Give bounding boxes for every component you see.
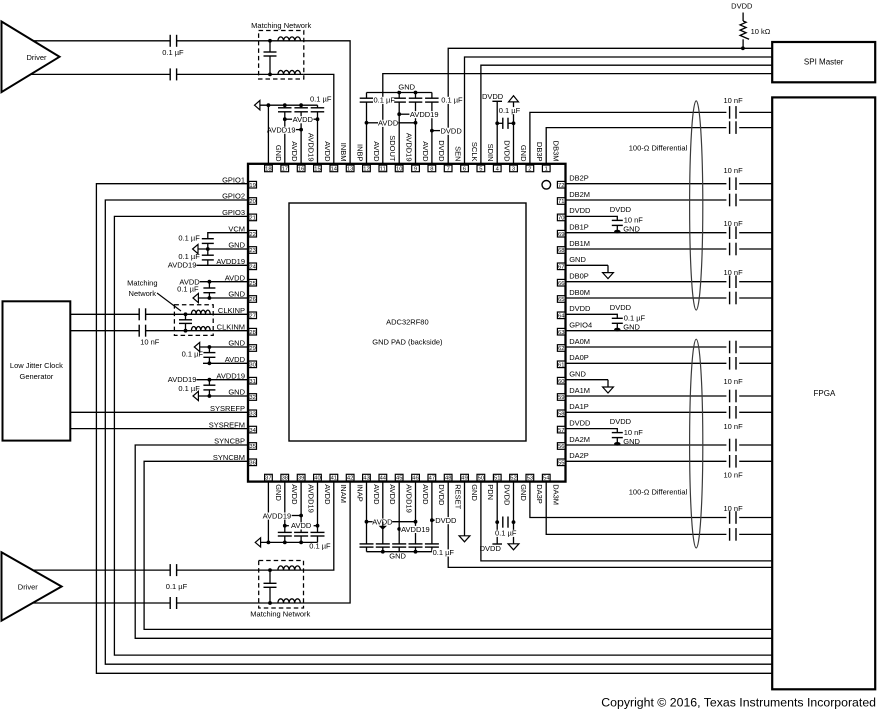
- svg-text:28: 28: [249, 330, 255, 336]
- svg-text:62: 62: [558, 346, 564, 352]
- svg-text:15: 15: [314, 167, 320, 173]
- svg-text:10 nF: 10 nF: [624, 428, 644, 437]
- svg-text:22: 22: [249, 232, 255, 238]
- svg-text:41: 41: [331, 476, 337, 482]
- svg-text:10 nF: 10 nF: [724, 268, 744, 277]
- svg-text:56: 56: [558, 444, 564, 450]
- svg-text:1: 1: [545, 167, 548, 173]
- svg-text:34: 34: [249, 428, 256, 434]
- svg-text:DVDD: DVDD: [610, 303, 632, 312]
- svg-text:0.1 µF: 0.1 µF: [433, 548, 455, 557]
- svg-text:9: 9: [414, 167, 417, 173]
- svg-text:38: 38: [282, 476, 288, 482]
- svg-text:0.1 µF: 0.1 µF: [495, 529, 517, 538]
- svg-text:AVDD19: AVDD19: [306, 484, 315, 513]
- svg-text:INAP: INAP: [355, 484, 364, 502]
- svg-text:45: 45: [396, 476, 402, 482]
- svg-text:40: 40: [314, 476, 320, 482]
- svg-text:RESET: RESET: [454, 484, 463, 509]
- svg-text:0.1 µF: 0.1 µF: [374, 96, 396, 105]
- svg-text:AVDD: AVDD: [290, 484, 299, 505]
- svg-text:18: 18: [265, 167, 271, 173]
- svg-text:26: 26: [249, 297, 255, 303]
- svg-text:10 kΩ: 10 kΩ: [751, 27, 771, 36]
- svg-text:DB0M: DB0M: [569, 288, 590, 297]
- svg-text:GND: GND: [519, 145, 528, 162]
- svg-text:AVDD: AVDD: [293, 115, 314, 124]
- svg-text:DB1P: DB1P: [569, 223, 589, 232]
- svg-text:CLKINM: CLKINM: [217, 322, 245, 331]
- svg-text:67: 67: [558, 264, 564, 270]
- svg-text:7: 7: [447, 167, 450, 173]
- svg-text:10 nF: 10 nF: [724, 422, 744, 431]
- svg-text:AVDD19: AVDD19: [263, 511, 292, 520]
- svg-text:GND: GND: [623, 323, 640, 332]
- svg-text:13: 13: [347, 167, 353, 173]
- svg-text:10 nF: 10 nF: [724, 471, 744, 480]
- svg-text:GND: GND: [519, 484, 528, 501]
- svg-text:DVDD: DVDD: [610, 417, 632, 426]
- svg-text:DA3P: DA3P: [535, 484, 544, 504]
- svg-text:AVDD: AVDD: [290, 141, 299, 162]
- svg-text:AVDD19: AVDD19: [401, 525, 430, 534]
- svg-text:32: 32: [249, 395, 255, 401]
- svg-text:GPIO1: GPIO1: [222, 175, 245, 184]
- svg-text:GND: GND: [470, 484, 479, 501]
- svg-text:PDN: PDN: [486, 484, 495, 500]
- svg-text:57: 57: [558, 428, 564, 434]
- svg-text:AVDD: AVDD: [372, 141, 381, 162]
- svg-text:AVDD19: AVDD19: [306, 133, 315, 162]
- svg-text:68: 68: [558, 248, 564, 254]
- svg-text:10 nF: 10 nF: [724, 219, 744, 228]
- svg-text:DA1M: DA1M: [569, 386, 590, 395]
- svg-text:GND: GND: [274, 484, 283, 501]
- svg-text:DVDD: DVDD: [569, 304, 591, 313]
- svg-text:DVDD: DVDD: [435, 516, 457, 525]
- svg-text:25: 25: [249, 281, 255, 287]
- svg-text:AVDD19: AVDD19: [410, 110, 439, 119]
- svg-text:AVDD19: AVDD19: [168, 260, 197, 269]
- svg-text:DVDD: DVDD: [569, 206, 591, 215]
- svg-text:AVDD19: AVDD19: [168, 375, 197, 384]
- svg-text:16: 16: [298, 167, 304, 173]
- svg-text:Low Jitter Clock: Low Jitter Clock: [10, 361, 63, 370]
- svg-text:AVDD19: AVDD19: [216, 257, 245, 266]
- svg-text:72: 72: [558, 183, 564, 189]
- svg-text:DVDD: DVDD: [503, 140, 512, 162]
- svg-text:17: 17: [282, 167, 288, 173]
- svg-text:70: 70: [558, 216, 564, 222]
- svg-text:DVDD: DVDD: [610, 205, 632, 214]
- svg-text:63: 63: [558, 330, 564, 336]
- svg-text:AVDD: AVDD: [225, 355, 246, 364]
- svg-text:CLKINP: CLKINP: [218, 306, 245, 315]
- svg-text:20: 20: [249, 199, 255, 205]
- svg-text:Matching Network: Matching Network: [251, 21, 311, 30]
- svg-text:AVDD: AVDD: [323, 484, 332, 505]
- svg-text:AVDD19: AVDD19: [405, 133, 414, 162]
- svg-text:SCLK: SCLK: [470, 142, 479, 162]
- svg-text:14: 14: [331, 167, 338, 173]
- svg-text:GND: GND: [228, 241, 245, 250]
- svg-text:2: 2: [528, 167, 531, 173]
- svg-text:DVDD: DVDD: [569, 418, 591, 427]
- svg-text:8: 8: [430, 167, 433, 173]
- svg-text:DB3P: DB3P: [535, 142, 544, 162]
- svg-text:Driver: Driver: [27, 53, 48, 62]
- svg-text:GND: GND: [569, 255, 586, 264]
- svg-text:AVDD: AVDD: [421, 141, 430, 162]
- svg-text:0.1 µF: 0.1 µF: [309, 541, 331, 550]
- svg-text:Driver: Driver: [18, 582, 39, 591]
- svg-text:SEN: SEN: [454, 146, 463, 161]
- svg-text:69: 69: [558, 232, 564, 238]
- svg-text:DB2P: DB2P: [569, 174, 589, 183]
- svg-text:SYNCBP: SYNCBP: [214, 437, 245, 446]
- svg-text:AVDD: AVDD: [372, 484, 381, 505]
- svg-text:64: 64: [558, 313, 565, 319]
- svg-text:DA2M: DA2M: [569, 435, 590, 444]
- svg-text:SDIN: SDIN: [486, 144, 495, 162]
- svg-text:GPIO2: GPIO2: [222, 192, 245, 201]
- svg-text:35: 35: [249, 444, 255, 450]
- svg-text:DA1P: DA1P: [569, 402, 589, 411]
- svg-text:AVDD: AVDD: [225, 273, 246, 282]
- svg-text:GND: GND: [623, 437, 640, 446]
- svg-text:INBM: INBM: [339, 143, 348, 162]
- svg-text:31: 31: [249, 379, 255, 385]
- svg-text:SYSREFM: SYSREFM: [209, 420, 245, 429]
- svg-text:AVDD19: AVDD19: [216, 371, 245, 380]
- svg-text:10 nF: 10 nF: [140, 338, 160, 347]
- svg-text:DA0P: DA0P: [569, 353, 589, 362]
- svg-text:Network: Network: [129, 289, 157, 298]
- svg-text:DVDD: DVDD: [503, 484, 512, 506]
- svg-text:58: 58: [558, 411, 564, 417]
- svg-text:AVDD: AVDD: [291, 521, 312, 530]
- svg-text:FPGA: FPGA: [814, 389, 836, 398]
- svg-text:GND: GND: [623, 225, 640, 234]
- svg-text:47: 47: [429, 476, 435, 482]
- svg-text:DVDD: DVDD: [441, 127, 463, 136]
- svg-text:SDOUT: SDOUT: [388, 135, 397, 162]
- svg-text:INAM: INAM: [339, 484, 348, 503]
- svg-text:ADC32RF80: ADC32RF80: [386, 317, 429, 326]
- svg-text:GPIO3: GPIO3: [222, 208, 245, 217]
- svg-text:Matching Network: Matching Network: [250, 610, 310, 619]
- svg-text:59: 59: [558, 395, 564, 401]
- svg-text:12: 12: [363, 167, 369, 173]
- svg-text:39: 39: [298, 476, 304, 482]
- svg-text:Generator: Generator: [20, 372, 54, 381]
- svg-text:19: 19: [249, 183, 255, 189]
- svg-text:52: 52: [510, 476, 516, 482]
- svg-text:100-Ω Differential: 100-Ω Differential: [629, 488, 688, 497]
- svg-text:61: 61: [558, 362, 564, 368]
- svg-text:30: 30: [249, 362, 255, 368]
- svg-text:GND: GND: [228, 339, 245, 348]
- svg-text:51: 51: [494, 476, 500, 482]
- svg-text:50: 50: [478, 476, 484, 482]
- svg-text:10 nF: 10 nF: [624, 216, 644, 225]
- svg-text:5: 5: [479, 167, 482, 173]
- svg-text:AVDD: AVDD: [388, 484, 397, 505]
- svg-text:DB2M: DB2M: [569, 190, 590, 199]
- svg-text:Matching: Matching: [127, 279, 157, 288]
- svg-text:10: 10: [396, 167, 402, 173]
- svg-text:AVDD: AVDD: [421, 484, 430, 505]
- svg-text:GND: GND: [569, 370, 586, 379]
- svg-text:0.1 µF: 0.1 µF: [177, 285, 199, 294]
- svg-text:23: 23: [249, 248, 255, 254]
- svg-text:0.1 µF: 0.1 µF: [166, 582, 188, 591]
- svg-text:44: 44: [380, 476, 387, 482]
- svg-text:DB3M: DB3M: [552, 141, 561, 162]
- svg-text:21: 21: [249, 216, 255, 222]
- svg-text:10 nF: 10 nF: [724, 504, 744, 513]
- svg-text:6: 6: [463, 167, 466, 173]
- svg-text:36: 36: [249, 460, 255, 466]
- svg-text:27: 27: [249, 313, 255, 319]
- svg-text:54: 54: [543, 476, 550, 482]
- svg-text:AVDD: AVDD: [378, 119, 399, 128]
- svg-text:0.1 µF: 0.1 µF: [162, 48, 184, 57]
- svg-text:DB0P: DB0P: [569, 272, 589, 281]
- svg-text:DVDD: DVDD: [480, 544, 502, 553]
- svg-text:0.1 µF: 0.1 µF: [310, 94, 332, 103]
- svg-text:10 nF: 10 nF: [724, 377, 744, 386]
- svg-text:SPI Master: SPI Master: [804, 58, 844, 67]
- svg-text:DVDD: DVDD: [437, 140, 446, 162]
- svg-text:DB1M: DB1M: [569, 239, 590, 248]
- svg-text:53: 53: [527, 476, 533, 482]
- svg-text:0.1 µF: 0.1 µF: [182, 349, 204, 358]
- svg-text:0.1 µF: 0.1 µF: [178, 384, 200, 393]
- svg-text:55: 55: [558, 460, 564, 466]
- svg-text:10 nF: 10 nF: [724, 96, 744, 105]
- svg-text:GND PAD (backside): GND PAD (backside): [372, 338, 443, 347]
- svg-text:10 nF: 10 nF: [724, 166, 744, 175]
- svg-text:29: 29: [249, 346, 255, 352]
- svg-text:49: 49: [461, 476, 467, 482]
- svg-text:GND: GND: [389, 552, 406, 561]
- svg-text:33: 33: [249, 411, 255, 417]
- svg-text:46: 46: [412, 476, 418, 482]
- svg-text:GND: GND: [274, 145, 283, 162]
- svg-text:AVDD: AVDD: [323, 141, 332, 162]
- svg-text:Copyright © 2016, Texas Instru: Copyright © 2016, Texas Instruments Inco…: [601, 695, 876, 709]
- svg-text:42: 42: [347, 476, 353, 482]
- svg-text:100-Ω Differential: 100-Ω Differential: [629, 144, 688, 153]
- svg-text:11: 11: [380, 167, 386, 173]
- svg-text:37: 37: [265, 476, 271, 482]
- svg-text:24: 24: [249, 264, 256, 270]
- svg-text:DVDD: DVDD: [731, 1, 753, 10]
- svg-text:GND: GND: [228, 388, 245, 397]
- svg-text:0.1 µF: 0.1 µF: [624, 314, 646, 323]
- svg-text:71: 71: [558, 199, 564, 205]
- svg-text:DVDD: DVDD: [482, 92, 504, 101]
- svg-text:60: 60: [558, 379, 564, 385]
- svg-text:DA3M: DA3M: [552, 484, 561, 505]
- svg-text:VCM: VCM: [228, 224, 245, 233]
- svg-text:GND: GND: [228, 290, 245, 299]
- svg-text:43: 43: [363, 476, 369, 482]
- svg-text:3: 3: [512, 167, 515, 173]
- svg-text:0.1 µF: 0.1 µF: [441, 96, 463, 105]
- svg-text:0.1 µF: 0.1 µF: [178, 233, 200, 242]
- svg-text:SYNCBM: SYNCBM: [213, 453, 245, 462]
- svg-text:DA2P: DA2P: [569, 451, 589, 460]
- svg-text:INBP: INBP: [355, 144, 364, 162]
- svg-text:GPIO4: GPIO4: [569, 321, 592, 330]
- svg-text:66: 66: [558, 281, 564, 287]
- svg-text:65: 65: [558, 297, 564, 303]
- svg-text:GND: GND: [398, 83, 415, 92]
- svg-text:SYSREFP: SYSREFP: [210, 404, 245, 413]
- svg-text:DVDD: DVDD: [437, 484, 446, 506]
- svg-text:DA0M: DA0M: [569, 337, 590, 346]
- svg-text:48: 48: [445, 476, 451, 482]
- svg-text:0.1 µF: 0.1 µF: [499, 106, 521, 115]
- svg-text:AVDD19: AVDD19: [405, 484, 414, 513]
- svg-text:AVDD19: AVDD19: [267, 126, 296, 135]
